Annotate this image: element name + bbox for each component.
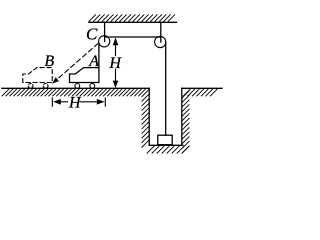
- cart B wheel 1 dashed: [28, 84, 33, 89]
- dimension H vertical bottom arrow: [113, 81, 119, 88]
- ceiling hatching: [89, 15, 175, 21]
- cart A wheel 1: [75, 84, 80, 89]
- weight in pit: [158, 135, 172, 145]
- dimension H horizontal line: [60, 101, 68, 103]
- pit floor: [149, 144, 183, 146]
- ground hatching right: [183, 89, 217, 96]
- right pulley hanger: [160, 22, 162, 42]
- rope down to weight: [165, 42, 167, 135]
- dimension H vertical line: [115, 45, 117, 56]
- cart B wheel 2 dashed: [43, 84, 48, 89]
- pit left wall: [148, 88, 150, 145]
- pulley C: [99, 36, 110, 47]
- dimension H horizontal ticks: [51, 98, 53, 106]
- pit left wall hatching: [142, 90, 149, 147]
- pulley C hanger: [104, 22, 106, 41]
- svg-text:B: B: [44, 53, 54, 70]
- pit right wall: [181, 88, 183, 145]
- arrowhead on dashed rope: [52, 77, 59, 84]
- right pulley: [155, 36, 166, 47]
- svg-text:A: A: [88, 53, 99, 70]
- ground hatching left: [2, 89, 145, 96]
- dimension H horizontal right arrow: [97, 99, 105, 105]
- ground surface left: [2, 87, 149, 89]
- dimension H horizontal left arrow: [53, 99, 61, 105]
- dimension H vertical top arrow: [113, 37, 119, 45]
- ground surface right: [182, 87, 222, 89]
- svg-text:H: H: [108, 55, 122, 72]
- dashed rope to cart B position: [52, 44, 98, 84]
- cart A wheel 2: [90, 84, 95, 89]
- cart A body: [70, 68, 99, 83]
- pit right wall hatching: [182, 91, 189, 153]
- cart B body dashed: [23, 68, 52, 83]
- ceiling support line: [89, 21, 177, 23]
- svg-text:H: H: [68, 94, 82, 111]
- svg-text:C: C: [86, 25, 98, 44]
- pit floor hatching: [147, 146, 189, 153]
- rope from pulley C to cart A: [98, 45, 100, 68]
- rope between pulleys: [105, 36, 160, 38]
